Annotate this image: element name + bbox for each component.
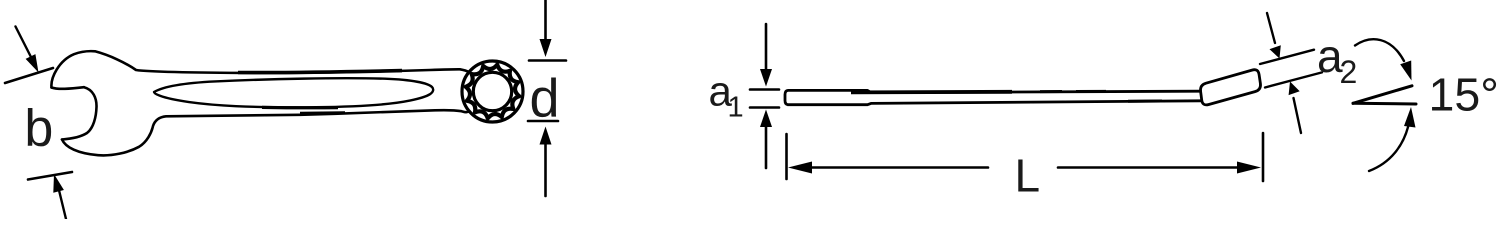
open-end upper jaw flat [52, 87, 85, 89]
dimension L: right line segment [1058, 166, 1238, 169]
15 degree upper arc arrow [1355, 39, 1404, 61]
svg-text:15°: 15° [1429, 69, 1499, 121]
15 degree wedge upper line [1353, 86, 1412, 104]
dimension a2: lower arrow [1294, 98, 1302, 133]
dimension b: lower arrow [57, 182, 66, 219]
dimension b: lower extension tick [28, 172, 72, 180]
side view: box-end head (rounded rect, tilted) [1201, 70, 1261, 105]
svg-text:b: b [24, 100, 53, 158]
side view: wrench bar outline [785, 90, 1201, 104]
dimension L: right extension line [1262, 133, 1265, 181]
side view: a1 top arrowhead [760, 69, 772, 87]
dimension L: left line segment [810, 166, 988, 169]
lower jaw and handle bottom contour [62, 110, 470, 155]
dimension L: left extension line [785, 134, 788, 179]
svg-text:1: 1 [728, 92, 744, 124]
dimension d: top arrowhead [540, 39, 552, 57]
handle oval bottom stipple [262, 106, 338, 110]
svg-text:d: d [530, 69, 560, 129]
open-end mouth cavity wall [62, 87, 97, 139]
ring inner 12-point profile circle [473, 72, 511, 110]
dimension L: right arrowhead [1237, 162, 1261, 174]
ring inner 12-point star teeth [466, 65, 520, 119]
dimension a2: upper arrow [1267, 13, 1275, 43]
side view: a1 bottom arrow line [765, 126, 768, 168]
dimension L: left arrowhead [788, 162, 812, 174]
dimension b: upper extension tick [5, 68, 53, 83]
handle bottom edge stipple [300, 111, 345, 115]
open-end head outer contour (plan view) [51, 51, 469, 87]
ring (box-end) outer circle [462, 61, 523, 122]
dimension a2: lower extension line [1265, 72, 1322, 87]
dimension b: upper arrow [16, 27, 34, 62]
dimension d: bottom arrow line [544, 144, 547, 196]
side view: a1 bottom tick [750, 106, 779, 109]
svg-text:L: L [1015, 150, 1041, 202]
handle top edge stipple [238, 71, 402, 73]
dimension d: top arrow line [544, 0, 547, 40]
svg-text:2: 2 [1340, 54, 1358, 90]
dimension a2: upper extension line [1260, 50, 1314, 64]
side view: bar stipple marks [851, 90, 1012, 94]
15 degree wedge lower line [1353, 102, 1416, 106]
side view: a1 bottom arrowhead [760, 110, 772, 128]
handle panel oval [154, 78, 433, 107]
side view: a1 top tick [750, 88, 779, 91]
dimension d: bottom arrowhead [540, 127, 552, 145]
dimension d: top tick [529, 59, 566, 62]
dimension d: bottom tick [528, 120, 558, 123]
side view: a1 top arrow line [765, 24, 768, 70]
15 degree lower arc arrow [1369, 123, 1409, 171]
